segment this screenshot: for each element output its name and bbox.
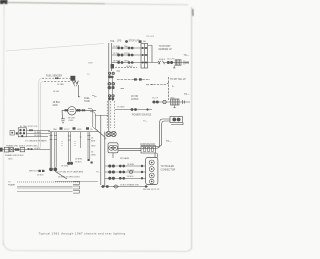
svg-text:STOP: STOP	[124, 53, 130, 55]
svg-text:TO LH TAIL STOP LAMP ASM: TO LH TAIL STOP LAMP ASM	[56, 170, 83, 173]
svg-text:TO—: TO—	[184, 55, 190, 57]
svg-text:18 GRN: 18 GRN	[113, 60, 121, 62]
svg-text:LIC LPS: LIC LPS	[167, 59, 175, 61]
svg-text:FRAME GRD 18 BLK 18 BRN GRD: FRAME GRD 18 BLK 18 BRN GRD	[6, 144, 38, 147]
svg-text:18 BRN: 18 BRN	[113, 46, 121, 48]
svg-text:TO: TO	[8, 182, 11, 184]
svg-text:GRD: GRD	[77, 129, 82, 131]
svg-text:18 BLK: 18 BLK	[34, 148, 41, 150]
svg-text:18 BLK: 18 BLK	[53, 102, 61, 104]
svg-text:TO RH TAIL LP: TO RH TAIL LP	[170, 78, 186, 81]
svg-text:SEE NOTE: SEE NOTE	[29, 170, 40, 172]
svg-text:18 BLK: 18 BLK	[127, 176, 134, 178]
svg-text:TO RH FRT: TO RH FRT	[159, 46, 172, 48]
svg-text:LIC LP: LIC LP	[152, 98, 159, 100]
svg-text:FRAME GRD: FRAME GRD	[5, 154, 18, 157]
svg-text:Typical 1981 through 1987 chas: Typical 1981 through 1987 chassis and re…	[39, 232, 126, 236]
svg-text:18 TAN: 18 TAN	[57, 83, 64, 86]
svg-text:RR HARN: RR HARN	[120, 157, 130, 160]
svg-text:TO—: TO—	[143, 121, 148, 123]
svg-text:18 BLK: 18 BLK	[37, 175, 44, 177]
svg-text:18 GRN: 18 GRN	[34, 135, 42, 137]
svg-text:18 BLK: 18 BLK	[17, 155, 24, 157]
svg-text:STOP: STOP	[64, 129, 70, 131]
svg-text:CONN BLOCK: CONN BLOCK	[140, 144, 156, 146]
svg-text:18 BLK: 18 BLK	[131, 99, 139, 101]
svg-text:RH TAIL STOP LP: RH TAIL STOP LP	[143, 188, 160, 191]
svg-text:FUEL SENDER: FUEL SENDER	[46, 76, 62, 78]
svg-text:TANK: TANK	[84, 100, 90, 103]
svg-text:18 BRN 18 GRN 18 BLK: 18 BRN 18 GRN 18 BLK	[58, 176, 81, 178]
svg-text:18 YEL: 18 YEL	[113, 53, 120, 55]
svg-text:18 BLK FRAME GRD: 18 BLK FRAME GRD	[120, 183, 140, 186]
svg-text:GRD: GRD	[124, 60, 129, 62]
svg-text:GRD: GRD	[53, 105, 58, 107]
svg-text:18 GA: 18 GA	[53, 90, 59, 93]
svg-text:TK UNIT: TK UNIT	[68, 117, 77, 119]
svg-text:GRD: GRD	[170, 98, 175, 100]
svg-text:18 BLK: 18 BLK	[159, 59, 166, 61]
svg-text:18 BRN: 18 BRN	[34, 132, 42, 134]
svg-text:18 VIO: 18 VIO	[131, 96, 138, 98]
svg-text:18 BRN: 18 BRN	[75, 159, 83, 161]
svg-text:LPS: LPS	[117, 41, 122, 43]
svg-text:RR LPS: RR LPS	[147, 36, 155, 38]
svg-text:GRD: GRD	[8, 158, 13, 160]
svg-text:GRD: GRD	[91, 146, 96, 148]
svg-text:TK GRD: TK GRD	[117, 107, 125, 109]
svg-text:FUEL: FUEL	[84, 98, 91, 100]
svg-text:BRN: BRN	[91, 141, 96, 143]
svg-text:18 GRN: 18 GRN	[61, 166, 69, 168]
svg-text:POWER SOURCE: POWER SOURCE	[132, 115, 152, 117]
svg-text:FUEL: FUEL	[69, 120, 75, 122]
svg-text:TO CHASSIS FR HARN: TO CHASSIS FR HARN	[25, 139, 47, 142]
svg-text:TO TRAILER: TO TRAILER	[161, 165, 175, 168]
svg-text:STOP LPS: STOP LPS	[129, 41, 141, 43]
svg-text:TAIL: TAIL	[110, 40, 115, 43]
svg-text:CONNECTOR: CONNECTOR	[161, 169, 176, 171]
svg-text:18 BRN: 18 BRN	[127, 164, 135, 166]
svg-text:TO—: TO—	[166, 141, 172, 143]
svg-text:18 BLK: 18 BLK	[126, 66, 133, 68]
svg-text:TO—: TO—	[96, 171, 101, 173]
svg-text:VENT: VENT	[88, 63, 94, 65]
svg-text:MARKER LP: MARKER LP	[159, 48, 173, 51]
svg-text:FRAME: FRAME	[8, 183, 16, 186]
svg-text:GRN: GRN	[91, 155, 96, 157]
svg-text:18 BLK: 18 BLK	[75, 162, 82, 164]
svg-text:TO—: TO—	[184, 94, 190, 96]
svg-text:B+ TAIL STOP LPS: B+ TAIL STOP LPS	[20, 125, 38, 128]
svg-text:18 GRN: 18 GRN	[127, 170, 135, 172]
